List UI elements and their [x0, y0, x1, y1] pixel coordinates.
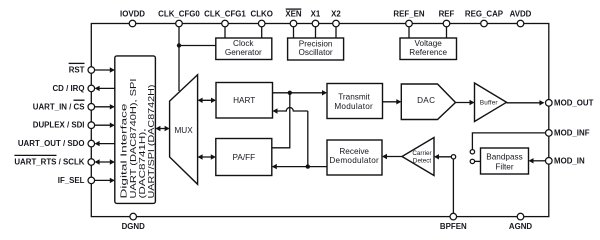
pin UART_RTS/SCLK	[88, 159, 95, 166]
svg-text:REG_CAP: REG_CAP	[465, 9, 503, 18]
pin MOD_OUT	[546, 100, 553, 107]
block HART	[216, 83, 273, 119]
wire UART_IN/CS to interface	[95, 106, 114, 108]
svg-text:REF_EN: REF_EN	[393, 9, 424, 18]
svg-text:Modulator: Modulator	[334, 102, 373, 111]
wire CLK_CFG0 to Clock Generator	[179, 45, 216, 47]
wire receive vertical	[307, 111, 309, 167]
svg-text:IF_SEL: IF_SEL	[58, 176, 85, 185]
wire demodulator out to PA/FF	[273, 166, 327, 168]
wire IF_SEL to interface	[95, 179, 114, 181]
svg-text:Clock: Clock	[233, 39, 254, 48]
wire MOD_IN to Bandpass Filter	[530, 160, 546, 162]
wire switch pole to Carrier Detect	[435, 156, 451, 158]
block Voltage Reference	[400, 38, 457, 60]
pin X2	[333, 20, 340, 27]
wire XEN drop	[293, 24, 295, 39]
pin IF_SEL	[88, 177, 95, 184]
block Precision Oscillator	[288, 38, 344, 60]
block Receive Demodulator	[327, 140, 382, 175]
node CLK_CFG0 junction	[177, 43, 181, 47]
svg-text:X1: X1	[311, 9, 321, 18]
pin BPFEN	[450, 213, 457, 220]
mux MUX	[170, 75, 198, 185]
wire X1 drop	[315, 24, 317, 39]
svg-text:IOVDD: IOVDD	[120, 9, 145, 18]
wire MOD_INF to switch throw	[472, 133, 545, 150]
svg-text:Carrier: Carrier	[412, 150, 431, 157]
pin CLK_CFG1	[222, 20, 229, 27]
pin CLKO	[258, 20, 265, 27]
wire X2 drop	[335, 24, 337, 39]
node HART TX junction	[288, 91, 292, 95]
wire CD/IRQ from interface	[96, 87, 115, 89]
svg-text:AVDD: AVDD	[510, 9, 532, 18]
block PA/FF	[216, 139, 272, 176]
svg-text:DGND: DGND	[122, 222, 146, 231]
block Clock Generator	[216, 38, 272, 60]
pin DGND	[130, 213, 137, 220]
switch throw contact upper	[470, 150, 474, 154]
pin DUPLEX/SDI	[88, 122, 95, 129]
svg-text:DAC: DAC	[417, 96, 435, 105]
svg-text:CLKO: CLKO	[251, 9, 273, 18]
svg-text:HART: HART	[233, 96, 255, 105]
svg-text:Bandpass: Bandpass	[486, 153, 522, 162]
svg-text:AGND: AGND	[509, 222, 533, 231]
wire CLKO drop	[261, 24, 263, 39]
wire interface to MUX bidirectional	[156, 128, 168, 130]
svg-text:CLK_CFG1: CLK_CFG1	[204, 9, 246, 18]
svg-text:DUPLEX / SDI: DUPLEX / SDI	[33, 121, 85, 130]
wire REF_EN drop	[408, 24, 410, 39]
pin XEN	[290, 20, 297, 27]
wire HART TX branch to PA/FF	[272, 93, 290, 148]
wire RST to interface	[95, 69, 114, 71]
pin REG_CAP	[481, 20, 488, 27]
block Bandpass Filter	[481, 148, 529, 174]
svg-text:PA/FF: PA/FF	[233, 153, 256, 162]
svg-text:UART_IN / CS: UART_IN / CS	[33, 102, 85, 111]
svg-text:Demodulator: Demodulator	[329, 156, 379, 165]
wire switch pole to BPFEN	[452, 159, 454, 213]
wire Transmit Modulator to DAC	[383, 101, 401, 103]
wire throw to Bandpass Filter	[475, 160, 481, 162]
svg-text:Filter: Filter	[495, 162, 513, 171]
wire UART_OUT/SDO from interface	[96, 143, 115, 145]
wire DAC to Buffer	[456, 102, 474, 104]
svg-text:Reference: Reference	[409, 48, 447, 57]
package boundary	[91, 24, 549, 217]
wire Carrier Detect to Receive Demodulator	[383, 156, 402, 158]
dac DAC	[401, 84, 455, 120]
svg-text:UART_RTS / SCLK: UART_RTS / SCLK	[14, 158, 84, 167]
wire Buffer to MOD_OUT	[507, 102, 544, 104]
pin CD/IRQ	[88, 85, 95, 92]
pin AVDD	[517, 20, 524, 27]
svg-text:X2: X2	[331, 9, 341, 18]
pin X1	[312, 20, 319, 27]
svg-text:Transmit: Transmit	[338, 93, 370, 102]
wire MUX to PA/FF bidirectional	[199, 156, 215, 158]
svg-text:CLK_CFG0: CLK_CFG0	[158, 9, 200, 18]
node receive junction	[306, 164, 310, 168]
wire REF drop	[446, 24, 448, 39]
wire HART TX to Transmit Modulator	[273, 92, 327, 94]
wire CLK_CFG1 drop	[224, 24, 226, 39]
svg-text:XEN: XEN	[285, 9, 302, 18]
carrier detect comparator	[402, 138, 434, 176]
block Digital Interface	[115, 56, 156, 204]
svg-text:Oscillator: Oscillator	[299, 48, 333, 57]
wire CLK_CFG0 drop to MUX	[178, 24, 180, 92]
pin UART_OUT/SDO	[88, 140, 95, 147]
svg-text:MOD_IN: MOD_IN	[554, 156, 585, 165]
svg-text:MOD_OUT: MOD_OUT	[554, 98, 594, 107]
pin AGND	[517, 213, 524, 220]
svg-text:Buffer: Buffer	[480, 100, 498, 107]
svg-text:Receive: Receive	[339, 147, 369, 156]
block Transmit Modulator	[327, 84, 383, 119]
pin REF_EN	[406, 20, 413, 27]
pin REF	[443, 20, 450, 27]
svg-text:RST: RST	[69, 66, 85, 75]
svg-text:Precision: Precision	[299, 39, 333, 48]
svg-text:MOD_INF: MOD_INF	[554, 128, 590, 137]
switch throw contact lower	[470, 159, 474, 163]
svg-text:Voltage: Voltage	[415, 39, 443, 48]
pin RST	[88, 67, 95, 74]
pin UART_IN/CS	[88, 104, 95, 111]
pin MOD_IN	[546, 158, 553, 165]
pin MOD_INF	[546, 130, 553, 137]
svg-text:BPFEN: BPFEN	[440, 222, 467, 231]
svg-text:Generator: Generator	[225, 48, 262, 57]
svg-text:REF: REF	[439, 9, 455, 18]
svg-text:UART/SPI (DAC8742H): UART/SPI (DAC8742H)	[146, 84, 156, 198]
buffer U-buffer	[475, 83, 507, 122]
wire UART_RTS/SCLK bidirectional	[96, 161, 114, 163]
svg-text:CD / IRQ: CD / IRQ	[52, 84, 84, 93]
wire MUX to HART bidirectional	[199, 99, 215, 101]
pin IOVDD	[129, 20, 136, 27]
wire DUPLEX/SDI to interface	[95, 124, 114, 126]
svg-text:Detect: Detect	[413, 157, 431, 164]
switch pole contact	[451, 155, 455, 159]
wire receive line to HART with hop	[274, 108, 308, 112]
svg-text:MUX: MUX	[174, 126, 193, 135]
svg-text:UART_OUT / SDO: UART_OUT / SDO	[18, 139, 85, 148]
pin CLK_CFG0	[176, 20, 183, 27]
